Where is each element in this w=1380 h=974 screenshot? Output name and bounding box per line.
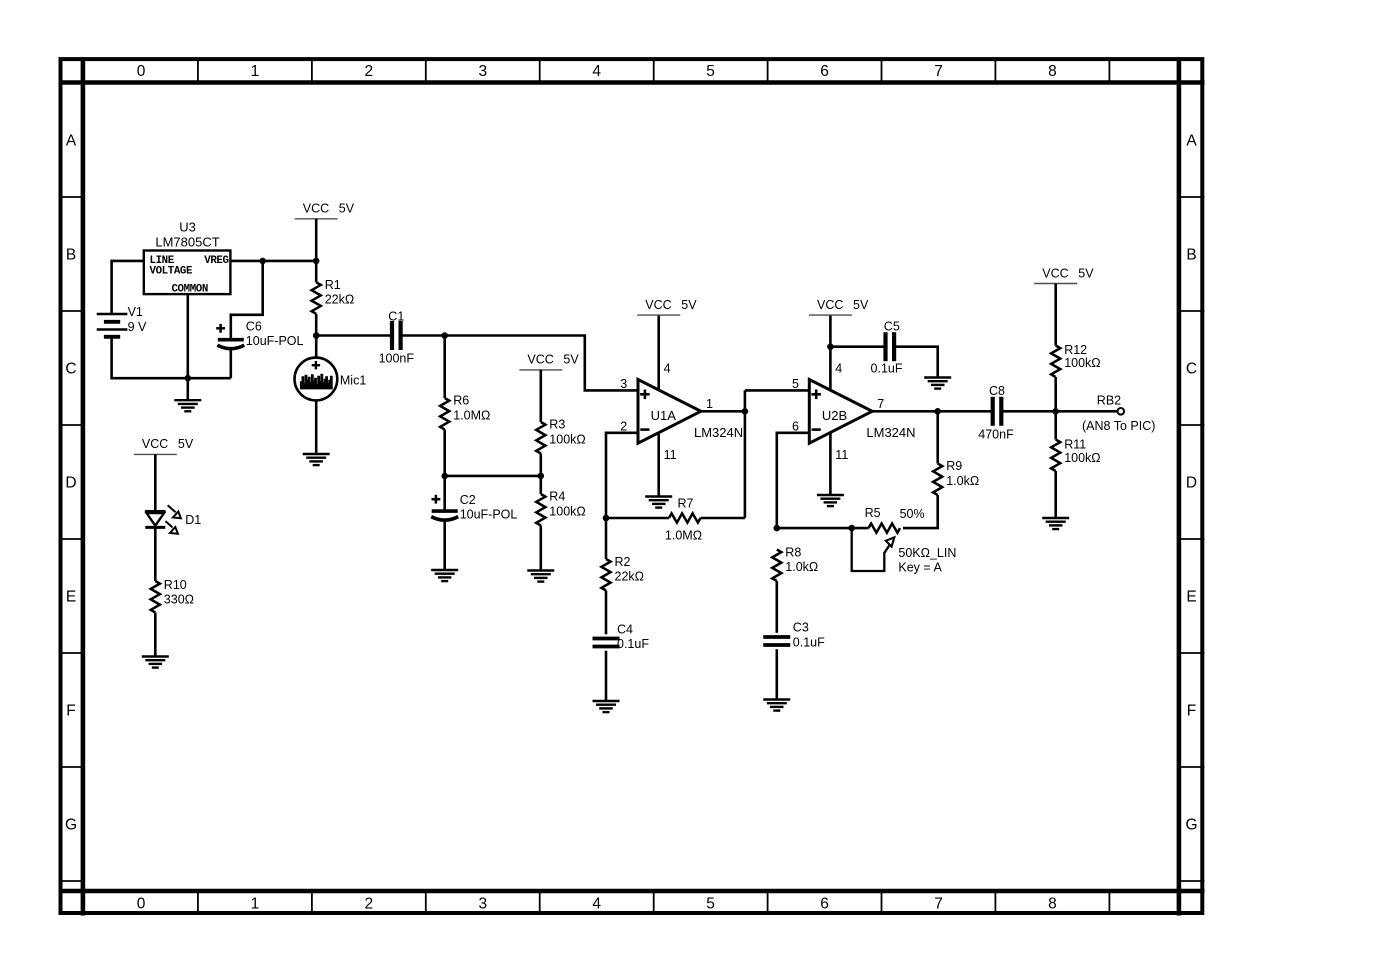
svg-text:D1: D1 (185, 513, 201, 527)
wire node to R11 (1054, 411, 1057, 439)
svg-text:C8: C8 (989, 384, 1005, 398)
svg-text:9 V: 9 V (128, 320, 147, 334)
svg-text:4: 4 (592, 63, 601, 80)
svg-text:4: 4 (835, 362, 842, 376)
svg-text:100kΩ: 100kΩ (549, 432, 585, 446)
wire U1A output pin 1 (701, 410, 745, 413)
ground below R11 (1042, 518, 1069, 529)
svg-text:100nF: 100nF (379, 352, 415, 366)
capacitor C6 10uF-POL (217, 340, 244, 349)
capacitor C3 0.1uF (763, 637, 790, 645)
op-amp U2B triangle (809, 380, 872, 444)
svg-text:6: 6 (820, 896, 829, 913)
resistor R8 (772, 550, 781, 582)
wire U2B pin 4 to VCC (829, 315, 832, 390)
wire R6 to bias node (443, 430, 446, 476)
wire node to R6 (443, 336, 446, 399)
U1A plus input mark (640, 390, 650, 400)
power VCC 5V above D1 (134, 437, 194, 454)
wire Mic1 to ground (315, 400, 318, 452)
svg-text:22kΩ: 22kΩ (325, 293, 355, 307)
svg-text:8: 8 (1048, 896, 1057, 913)
resistor R3 (536, 422, 545, 454)
power VCC 5V above R1 (295, 202, 355, 219)
svg-text:B: B (66, 247, 76, 264)
power VCC 5V above R3 (519, 353, 579, 370)
wire VREG output (230, 260, 316, 263)
ground U2B pin 11 (817, 495, 844, 506)
svg-text:E: E (66, 589, 76, 606)
wire junction to R2 (605, 518, 608, 559)
svg-text:470nF: 470nF (978, 428, 1014, 442)
svg-text:F: F (1187, 703, 1196, 720)
power VCC 5V U2B pin4 (809, 298, 869, 315)
capacitor C4 0.1uF (593, 639, 620, 647)
svg-text:0.1uF: 0.1uF (617, 637, 649, 651)
svg-text:VREG: VREG (204, 255, 228, 267)
svg-text:R3: R3 (549, 418, 565, 432)
resistor R4 (536, 494, 545, 526)
wire to U2B pin 5 (745, 389, 809, 392)
svg-text:R6: R6 (453, 394, 469, 408)
battery V1 (97, 314, 128, 337)
junction U1A out (742, 408, 749, 415)
svg-text:Key = A: Key = A (898, 560, 942, 574)
svg-text:C: C (65, 361, 76, 378)
wire C6 bottom to rail (230, 350, 233, 379)
svg-text:22kΩ: 22kΩ (615, 570, 645, 584)
wire R8 to C3 (775, 581, 778, 633)
resistor R12 (1051, 346, 1060, 378)
wire R3 to node (539, 454, 542, 476)
junction R12 / R11 / RB2 (1052, 408, 1059, 415)
ground below R10 (142, 657, 169, 668)
svg-text:C5: C5 (884, 320, 900, 334)
wire U2B pin 6 (777, 433, 810, 528)
ground below R4 (527, 571, 554, 582)
wire out to R9 (936, 411, 939, 463)
svg-text:2: 2 (364, 896, 373, 913)
svg-text:C2: C2 (460, 493, 476, 507)
svg-text:LM324N: LM324N (694, 425, 743, 440)
svg-text:RB2: RB2 (1097, 394, 1121, 408)
junction VREG / C6 (259, 258, 266, 265)
wire VCC to D1 (154, 454, 157, 512)
svg-text:D: D (1186, 475, 1197, 492)
row separators right band (1179, 197, 1205, 881)
border frame outer rectangle (61, 59, 1203, 913)
wire C4 to ground (605, 651, 608, 701)
op-amp U1A triangle (638, 380, 701, 444)
wire to U1A pin 3 (445, 336, 638, 391)
wire mic node to C1 (316, 334, 391, 337)
svg-text:50%: 50% (900, 507, 925, 521)
svg-text:100kΩ: 100kΩ (1064, 451, 1100, 465)
svg-text:G: G (65, 817, 77, 834)
svg-text:1.0kΩ: 1.0kΩ (785, 560, 818, 574)
resistor R9 (933, 464, 942, 496)
svg-text:2: 2 (364, 63, 373, 80)
svg-text:D: D (65, 475, 76, 492)
svg-text:R9: R9 (946, 459, 962, 473)
junction pin4 / C5 (827, 343, 834, 350)
svg-text:C1: C1 (388, 309, 404, 323)
svg-text:VOLTAGE: VOLTAGE (150, 265, 193, 277)
svg-text:7: 7 (934, 896, 943, 913)
svg-text:5V: 5V (178, 437, 194, 451)
svg-text:5V: 5V (563, 353, 579, 367)
wire R4 to ground (539, 526, 542, 570)
svg-text:VCC: VCC (527, 353, 553, 367)
svg-text:R11: R11 (1064, 438, 1086, 452)
svg-text:6: 6 (820, 63, 829, 80)
junction VREG net / VCC R1 (313, 258, 320, 265)
ground U1A pin 11 (645, 497, 672, 508)
svg-text:E: E (1186, 589, 1196, 606)
wire U1A pin 2 (606, 433, 638, 518)
junction R3 / R4 (538, 473, 545, 480)
wire R12 to node (1054, 377, 1057, 411)
resistor R10 (151, 581, 160, 613)
C2 polarity plus (432, 495, 441, 504)
svg-text:100kΩ: 100kΩ (549, 504, 585, 518)
svg-text:C6: C6 (246, 320, 262, 334)
svg-text:0: 0 (137, 896, 146, 913)
svg-text:5: 5 (792, 377, 799, 391)
wire U2B pin 11 to ground (829, 433, 832, 495)
svg-text:G: G (1185, 817, 1197, 834)
svg-text:8: 8 (1048, 63, 1057, 80)
C6 polarity plus (216, 324, 225, 333)
ground below C5 (924, 378, 951, 389)
capacitor C8 470nF (993, 397, 1002, 426)
wire U1A out vertical (744, 390, 747, 518)
svg-text:R5: R5 (865, 506, 881, 520)
junction mic node (313, 332, 320, 339)
svg-text:R12: R12 (1064, 343, 1087, 357)
Mic1 polarity plus (312, 361, 320, 369)
power VCC 5V U1A pin4 (637, 298, 697, 315)
border frame inner thick lines (59, 57, 1205, 915)
row separators left band (59, 197, 83, 881)
wire U2B output pin 7 (872, 410, 992, 413)
wire VCC to R1 (315, 219, 318, 282)
LED D1 emission arrows (165, 505, 181, 534)
wire to R7 (606, 517, 669, 520)
svg-text:R2: R2 (615, 555, 631, 569)
power VCC 5V above R12 (1034, 266, 1094, 283)
svg-text:5V: 5V (681, 298, 697, 312)
svg-text:C4: C4 (617, 622, 633, 636)
svg-text:5: 5 (706, 896, 715, 913)
svg-text:B: B (1186, 247, 1196, 264)
wire R10 to ground (154, 613, 157, 656)
ground below U3 COMMON (174, 400, 201, 411)
wire R1 to Mic1 (315, 314, 318, 358)
ground below Mic1 (303, 454, 330, 465)
ground below C2 (431, 570, 458, 581)
svg-text:1: 1 (251, 896, 260, 913)
svg-text:7: 7 (877, 397, 884, 411)
wire R2 to C4 (605, 591, 608, 635)
wire node to C2 (443, 476, 446, 510)
svg-text:1: 1 (706, 397, 713, 411)
wire C8 to RB2 (1003, 410, 1118, 413)
wire C2 to ground (443, 521, 446, 569)
svg-text:1.0MΩ: 1.0MΩ (453, 408, 490, 422)
wire R9 to pot (903, 495, 938, 528)
resistor R6 (440, 398, 449, 430)
junction R6 / C2 / R3R4 (441, 473, 448, 480)
wire C3 to ground (775, 649, 778, 699)
svg-text:VCC: VCC (645, 298, 671, 312)
wire battery bottom rail (112, 337, 231, 379)
capacitor C2 10uF-POL (431, 511, 458, 520)
U2B minus input mark (812, 428, 821, 431)
svg-text:11: 11 (835, 448, 848, 462)
wire COMMON to ground (187, 294, 190, 399)
wire D1 to R10 (154, 527, 157, 581)
wire VCC to R12 (1054, 284, 1057, 346)
svg-text:4: 4 (664, 362, 671, 376)
svg-text:Mic1: Mic1 (340, 374, 366, 388)
svg-text:(AN8 To PIC): (AN8 To PIC) (1082, 419, 1155, 433)
wire to pot left (777, 527, 852, 530)
svg-text:3: 3 (620, 377, 627, 391)
ground below C4 (593, 701, 620, 712)
svg-text:100kΩ: 100kΩ (1064, 356, 1100, 370)
svg-text:3: 3 (478, 63, 487, 80)
svg-text:R10: R10 (164, 578, 187, 592)
svg-text:2: 2 (620, 419, 627, 433)
svg-text:4: 4 (592, 896, 601, 913)
svg-text:COMMON: COMMON (171, 283, 207, 295)
svg-text:VCC: VCC (817, 298, 843, 312)
wire C1 to R6 node (402, 334, 445, 337)
svg-text:A: A (1186, 133, 1197, 150)
svg-text:6: 6 (792, 419, 799, 433)
svg-text:VCC: VCC (142, 437, 168, 451)
junction COMMON / bottom rail (185, 375, 192, 382)
resistor R11 (1051, 440, 1060, 472)
potentiometer R5 wiper (852, 528, 890, 571)
svg-text:U1A: U1A (651, 408, 677, 423)
column separators bottom band (198, 891, 1110, 913)
svg-text:11: 11 (664, 448, 677, 462)
junction C1 / R6 (441, 332, 448, 339)
svg-text:0: 0 (137, 63, 146, 80)
resistor R1 (312, 282, 321, 314)
junction pot left / wiper (848, 525, 855, 532)
svg-text:C: C (1186, 361, 1197, 378)
wire U1A pin 4 to VCC (657, 315, 660, 390)
svg-text:U2B: U2B (822, 408, 847, 423)
svg-text:330Ω: 330Ω (164, 592, 194, 606)
ground below C3 (763, 700, 790, 711)
LED D1 (145, 511, 166, 527)
svg-text:LM324N: LM324N (866, 425, 915, 440)
junction R2 / R7 (603, 515, 610, 522)
wire R7 to U1A out (701, 517, 745, 520)
potentiometer R5 body (869, 524, 901, 533)
wire to R5 (852, 527, 869, 530)
resistor R7 (669, 513, 701, 522)
column separators top band (198, 59, 1110, 82)
U1A minus input mark (640, 428, 649, 431)
microphone Mic1 (295, 358, 338, 401)
svg-text:10uF-POL: 10uF-POL (460, 507, 518, 521)
junction pin6 net / R8 (774, 525, 781, 532)
svg-text:0.1uF: 0.1uF (793, 635, 825, 649)
svg-text:5V: 5V (1078, 266, 1094, 280)
junction U2B out / R9 (934, 408, 941, 415)
voltage regulator U3 box (144, 251, 231, 295)
terminal RB2 circle (1118, 408, 1125, 415)
capacitor C1 100nF (392, 321, 401, 350)
svg-text:1.0kΩ: 1.0kΩ (946, 474, 979, 488)
wire bias node to R3/R4 (445, 475, 541, 478)
svg-text:R4: R4 (549, 490, 565, 504)
svg-text:V1: V1 (128, 305, 143, 319)
svg-text:5V: 5V (853, 298, 869, 312)
svg-text:7: 7 (934, 63, 943, 80)
svg-text:1: 1 (251, 63, 260, 80)
svg-text:10uF-POL: 10uF-POL (246, 334, 304, 348)
svg-text:F: F (66, 703, 75, 720)
svg-text:C3: C3 (793, 621, 809, 635)
capacitor C5 0.1uF (886, 332, 895, 361)
svg-text:50KΩ_LIN: 50KΩ_LIN (898, 546, 956, 560)
svg-text:0.1uF: 0.1uF (871, 361, 903, 375)
svg-text:3: 3 (478, 896, 487, 913)
svg-text:R1: R1 (325, 278, 341, 292)
wire R11 to ground (1054, 471, 1057, 517)
svg-text:5V: 5V (339, 202, 355, 216)
svg-text:1.0MΩ: 1.0MΩ (665, 529, 702, 543)
wire node to R4 (539, 476, 542, 494)
svg-text:A: A (66, 133, 77, 150)
svg-text:VCC: VCC (303, 202, 329, 216)
svg-text:R8: R8 (785, 545, 801, 559)
svg-text:LM7805CT: LM7805CT (155, 235, 219, 250)
resistor R2 (601, 559, 610, 591)
svg-text:VCC: VCC (1042, 266, 1068, 280)
svg-text:R7: R7 (678, 497, 694, 511)
svg-text:5: 5 (706, 63, 715, 80)
wire battery top to U3 LINE (112, 261, 144, 314)
wire to C5 (830, 345, 884, 348)
U2B plus input mark (811, 390, 821, 400)
wire U1A pin 11 to ground (657, 433, 660, 496)
wire VCC to R3 (539, 370, 542, 422)
wire to C6 top (231, 261, 263, 338)
svg-text:U3: U3 (179, 220, 196, 235)
wire C5 to ground (895, 347, 937, 377)
